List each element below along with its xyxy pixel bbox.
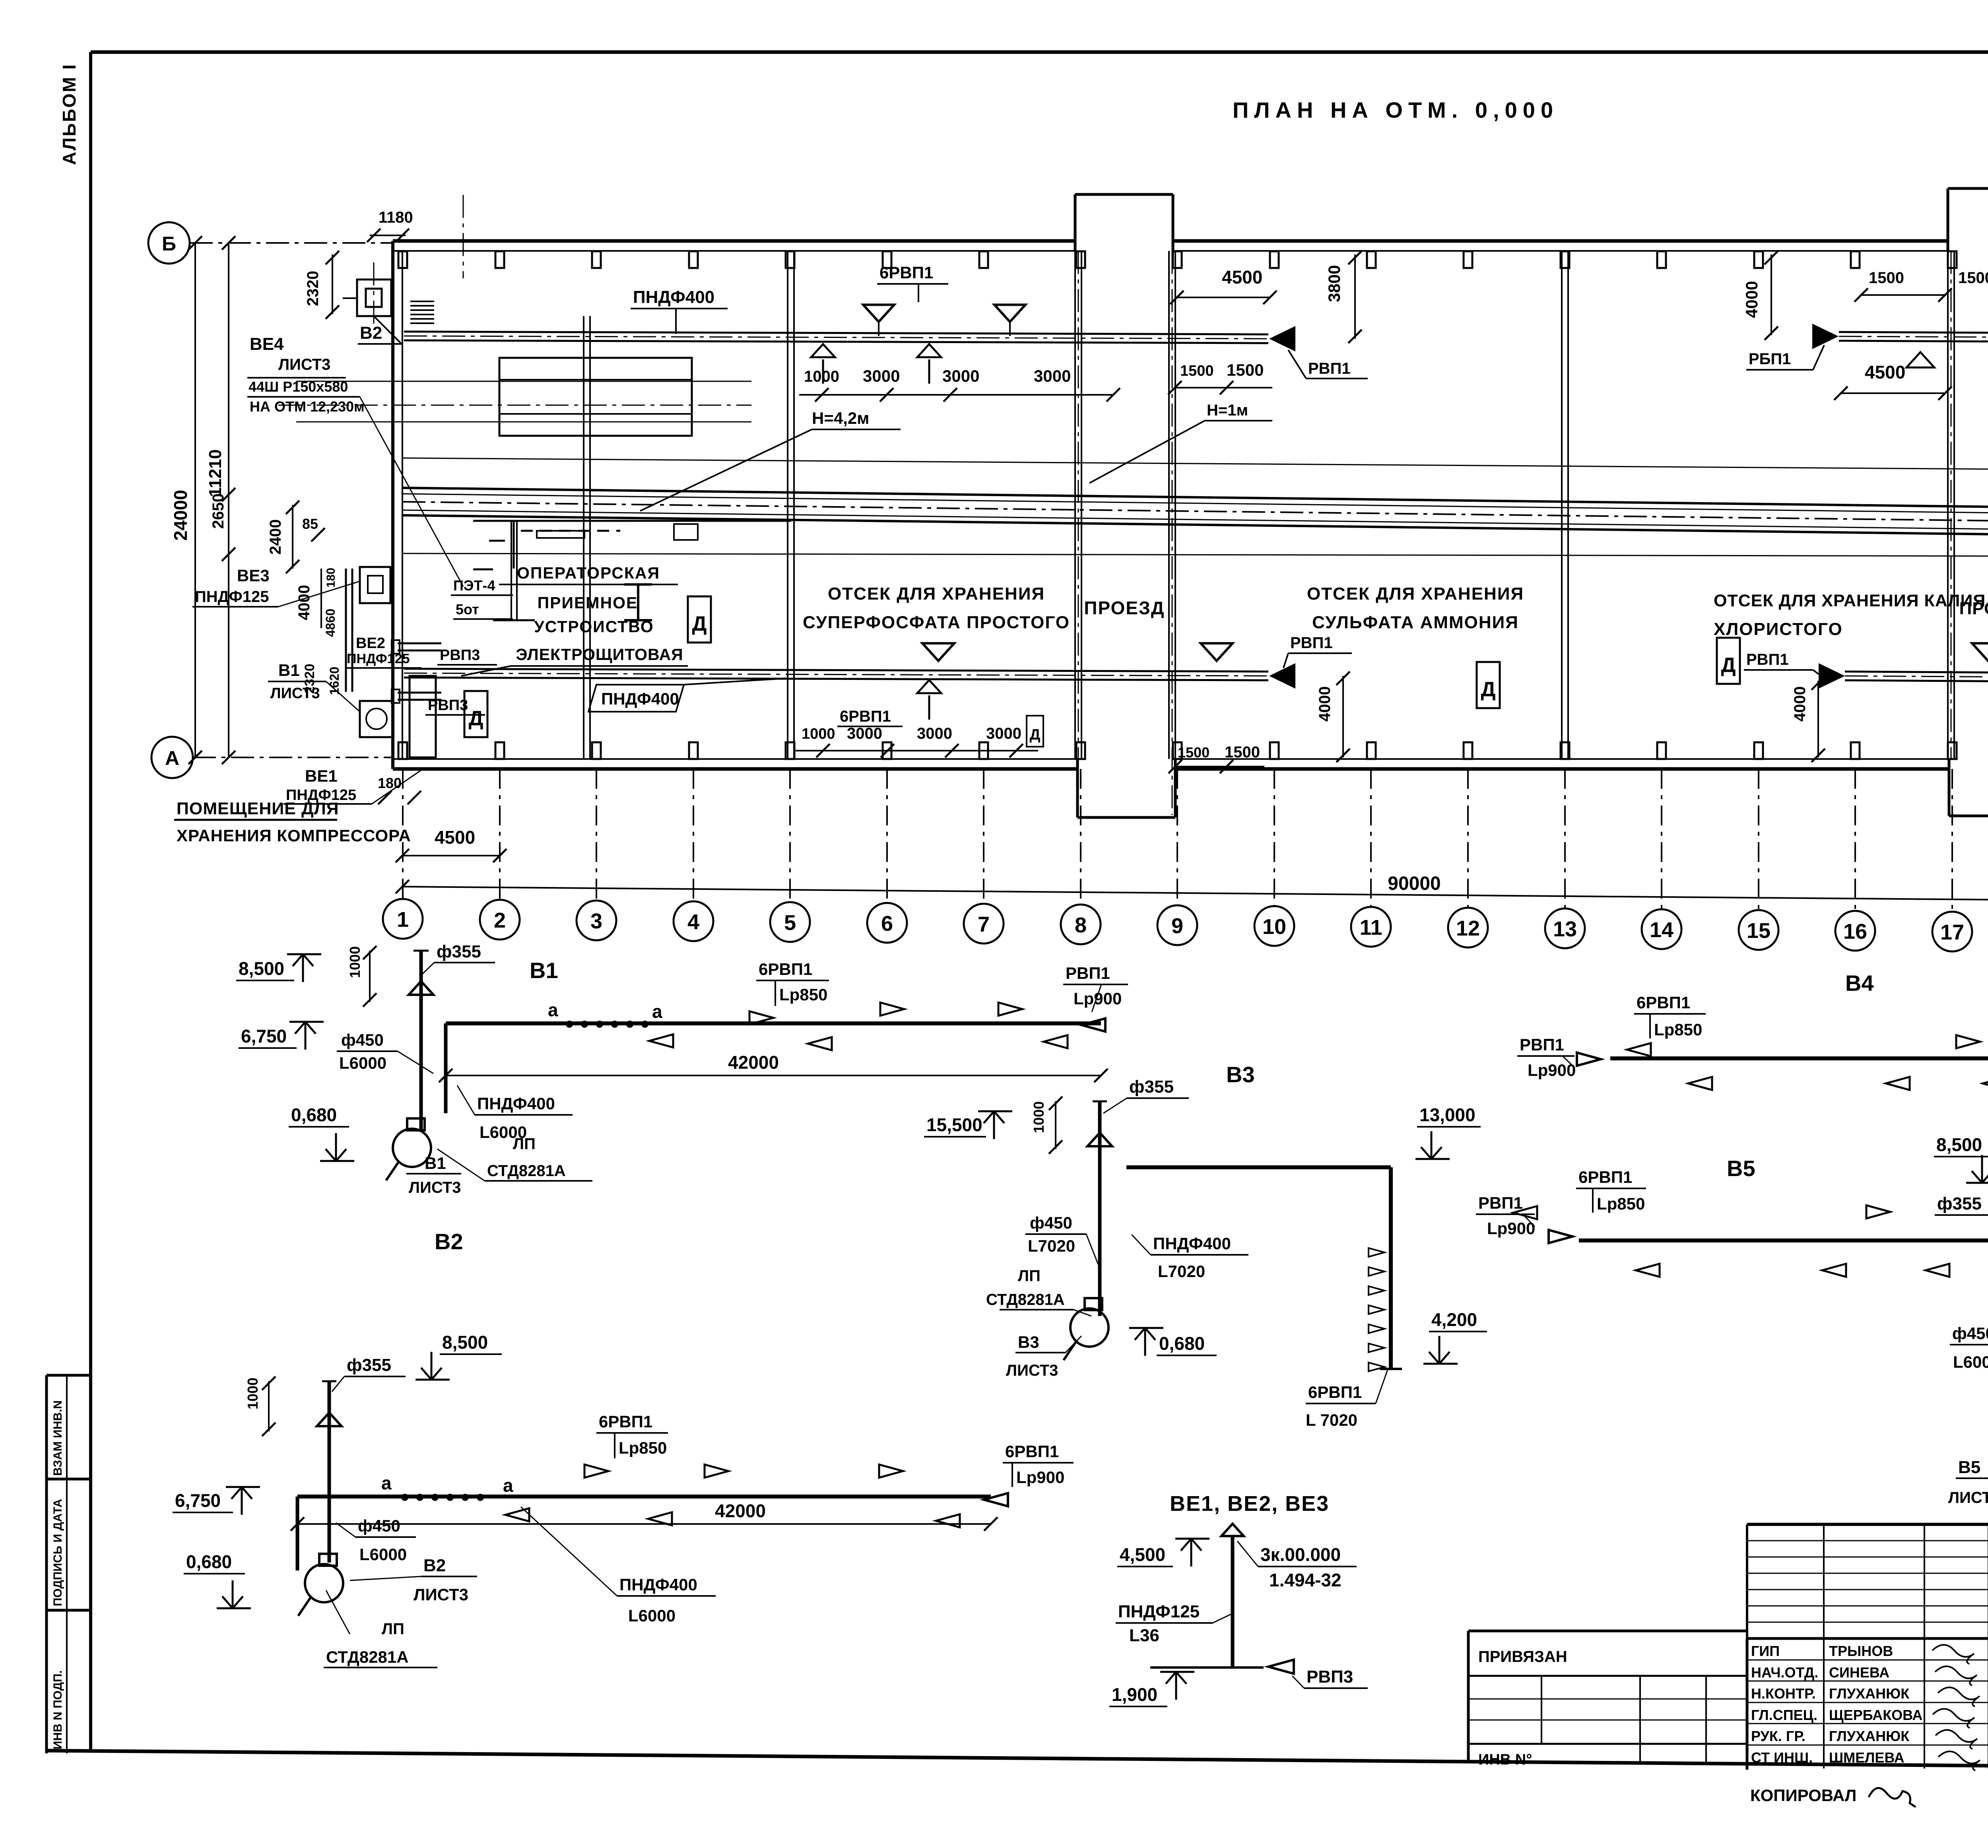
svg-text:ПОМЕЩЕНИЕ ДЛЯ: ПОМЕЩЕНИЕ ДЛЯ: [177, 799, 339, 818]
svg-text:а: а: [652, 1001, 662, 1022]
svg-text:ЛИСТ3: ЛИСТ3: [414, 1585, 468, 1604]
svg-text:ШМЕЛЕВА: ШМЕЛЕВА: [1829, 1749, 1905, 1766]
svg-text:3: 3: [590, 909, 602, 933]
svg-text:6РВП1: 6РВП1: [1005, 1442, 1059, 1461]
grid axis line 1: [402, 769, 404, 898]
B2 section marks a-a: [381, 1473, 513, 1501]
svg-text:1500: 1500: [1227, 361, 1264, 379]
grid circle 16: [1835, 911, 1875, 951]
svg-text:ХРАНЕНИЯ КОМПРЕССОРА: ХРАНЕНИЯ КОМПРЕССОРА: [177, 826, 411, 845]
svg-text:9: 9: [1171, 914, 1183, 938]
railway entry axis: [463, 195, 464, 278]
Д box 1: [464, 691, 487, 737]
svg-text:Д: Д: [1721, 654, 1736, 677]
svg-text:РВП3: РВП3: [440, 647, 480, 664]
B1 label РВП1 Lp900: [1063, 964, 1128, 1032]
svg-text:ВЕ1, ВЕ2, ВЕ3: ВЕ1, ВЕ2, ВЕ3: [1170, 1492, 1329, 1516]
svg-text:6,750: 6,750: [175, 1490, 221, 1511]
svg-text:6РВП1: 6РВП1: [1637, 993, 1690, 1012]
grid axis line 14: [1661, 769, 1662, 908]
svg-text:1180: 1180: [379, 209, 413, 226]
label РВП3 x2: [425, 647, 497, 715]
svg-text:РВП1: РВП1: [1308, 360, 1351, 377]
partition wall x1475: [584, 316, 590, 759]
svg-text:ИНВ N ПОДП.: ИНВ N ПОДП.: [51, 1670, 64, 1749]
grid circle 7: [964, 904, 1004, 943]
svg-text:ЛИСТ3: ЛИСТ3: [1006, 1362, 1058, 1379]
dim 1000-3000 upper-left: [799, 367, 1120, 402]
svg-text:7: 7: [978, 912, 990, 936]
B2 roof unit: [343, 262, 391, 330]
column ticks on walls: [398, 251, 1988, 759]
svg-text:180: 180: [324, 568, 338, 588]
label Операторская: [499, 564, 678, 584]
svg-text:СУЛЬФАТА АММОНИЯ: СУЛЬФАТА АММОНИЯ: [1312, 613, 1519, 632]
B3 label ЛП СТД8281А: [986, 1267, 1091, 1316]
B5 flow triangles above: [1866, 1205, 1890, 1219]
svg-text:8,500: 8,500: [442, 1332, 488, 1353]
B4 title: [1845, 971, 1874, 996]
B1 label ЛП СТД8281А: [437, 1135, 592, 1181]
privyazan texts: [1478, 1648, 1567, 1768]
svg-text:1000: 1000: [347, 946, 363, 978]
B3 label ф355: [1103, 1077, 1189, 1113]
label хранения компрессора: [177, 826, 411, 845]
svg-text:ПНДФ125: ПНДФ125: [1118, 1602, 1200, 1621]
svg-text:КОПИРОВАЛ: КОПИРОВАЛ: [1750, 1786, 1856, 1805]
svg-text:ф450: ф450: [341, 1031, 384, 1049]
svg-text:3000: 3000: [942, 367, 979, 385]
B1 dim 42000: [439, 1052, 1108, 1082]
duct ПНДФ400 upper-right: [1839, 332, 1988, 343]
label РБП1 upper-right: [1746, 345, 1824, 370]
stamp text ПОДПИСЬ И ДАТА: [51, 1499, 64, 1606]
grid axis line 16: [1854, 769, 1856, 910]
svg-text:ЛИСТ3: ЛИСТ3: [270, 685, 320, 702]
operator room walls: [473, 521, 791, 569]
B2 duct: [297, 1497, 991, 1570]
svg-text:А: А: [165, 747, 179, 769]
svg-text:13: 13: [1553, 917, 1577, 941]
svg-text:ГЛУХАНЮК: ГЛУХАНЮК: [1829, 1728, 1910, 1744]
label Отсек калия хлористого: [1714, 591, 1986, 639]
svg-text:L7020: L7020: [1028, 1237, 1075, 1255]
B3 level 4.200: [1423, 1309, 1487, 1364]
B1 level 6.750: [239, 1022, 324, 1050]
grid axis line 10: [1274, 769, 1275, 905]
svg-text:10: 10: [1262, 915, 1286, 939]
label ПНДФ400 lower-left: [588, 678, 787, 712]
svg-text:АЛЬБОМ I: АЛЬБОМ I: [59, 63, 80, 165]
svg-text:ф450: ф450: [1952, 1324, 1988, 1343]
B5 level 8.500: [1934, 1134, 1988, 1183]
svg-text:1000: 1000: [804, 368, 839, 385]
svg-text:6РВП1: 6РВП1: [759, 960, 812, 978]
svg-text:6РВП1: 6РВП1: [599, 1412, 652, 1431]
B1 section marks a-a: [548, 1000, 662, 1028]
passage partition walls: [1075, 251, 1988, 759]
svg-text:Lp850: Lp850: [1654, 1020, 1702, 1039]
svg-text:4000: 4000: [1791, 686, 1809, 722]
label ВЕ1 ПНДФ125 bottom: [283, 767, 421, 804]
svg-text:ПНДФ400: ПНДФ400: [1153, 1234, 1231, 1253]
B5 label 6РВП1 Lp850 left: [1513, 1168, 1646, 1219]
B3 level 0.680: [1129, 1328, 1217, 1356]
label ВЕ4 list3 top: [247, 334, 463, 586]
svg-text:РВП1: РВП1: [1746, 651, 1789, 668]
B2 label ЛП СТД8281А: [324, 1590, 437, 1667]
svg-text:1620: 1620: [327, 667, 342, 695]
grid circle 2: [480, 900, 520, 940]
label 6РВП1 lower-left: [837, 708, 903, 726]
label РВП1 lower-right: [1744, 651, 1829, 682]
svg-text:РВП1: РВП1: [1290, 634, 1333, 652]
svg-text:В5: В5: [1958, 1458, 1980, 1477]
svg-text:Lp900: Lp900: [1016, 1468, 1064, 1487]
title block names: [1751, 1643, 1988, 1766]
partition x1292: [493, 521, 535, 620]
B3 duct: [1126, 1167, 1402, 1369]
B1 dim 1000: [347, 946, 377, 1007]
dim 4000 left: [295, 569, 321, 628]
Д box 2: [688, 596, 711, 643]
duct arrow РБП1 upper-right start: [1812, 324, 1839, 349]
B4 label 6РВП1 Lp850: [1627, 993, 1706, 1056]
BE level 1.900: [1109, 1672, 1194, 1706]
svg-text:12: 12: [1456, 916, 1480, 940]
svg-text:14: 14: [1650, 918, 1673, 942]
grid axis line 13: [1564, 769, 1566, 908]
svg-text:2650: 2650: [210, 493, 227, 529]
svg-text:6,750: 6,750: [241, 1026, 287, 1046]
label Н=1м mid: [1089, 402, 1272, 483]
svg-text:6РВП1: 6РВП1: [879, 263, 933, 282]
svg-text:4000: 4000: [1316, 686, 1334, 722]
svg-text:ф355: ф355: [347, 1355, 391, 1375]
dim 1180 top: [367, 209, 413, 242]
svg-text:ВЕ4: ВЕ4: [250, 334, 284, 354]
svg-text:L6000: L6000: [339, 1054, 386, 1072]
svg-text:ЛИСТ3: ЛИСТ3: [409, 1179, 461, 1196]
label ПНДФ400 upper-left: [631, 287, 728, 334]
B5 title: [1727, 1156, 1755, 1181]
svg-text:ПРИВЯЗАН: ПРИВЯЗАН: [1478, 1648, 1567, 1666]
dim 1500-1500 lower passage1: [1169, 743, 1264, 773]
grid axis line 8: [1080, 769, 1081, 904]
grid axis line 5: [789, 769, 791, 901]
grid axis line 3: [596, 769, 597, 900]
dim 4000 lower mid: [1316, 672, 1350, 762]
svg-text:1500: 1500: [1180, 363, 1214, 379]
grid circle 3: [577, 901, 616, 940]
B2 fan: [298, 1554, 343, 1616]
exhaust arrows upper-left: [811, 344, 941, 384]
svg-text:а: а: [548, 1000, 558, 1020]
B3 label 6РВП1 L7020: [1306, 1370, 1388, 1429]
grid circle 17: [1932, 912, 1972, 951]
B1 fan: [386, 1118, 431, 1180]
B1 level 0.680: [289, 1105, 354, 1161]
svg-text:3000: 3000: [917, 725, 952, 742]
B3 level 15.500: [924, 1111, 1012, 1139]
B5 label ф355: [1935, 1194, 1988, 1215]
dim 1000-3000x3 lower-left: [796, 725, 1038, 757]
BE level 4.500: [1117, 1539, 1209, 1567]
stamp text ИНВ № ПОДП: [51, 1670, 64, 1749]
svg-text:ГИП: ГИП: [1751, 1643, 1780, 1659]
B1 flow triangles below: [649, 1035, 1068, 1050]
svg-text:0,680: 0,680: [291, 1105, 337, 1125]
svg-text:3800: 3800: [1325, 265, 1343, 302]
dim 1500-1500 right upper: [1854, 269, 1988, 302]
grid axis line 4: [693, 769, 694, 901]
svg-text:L6000: L6000: [628, 1606, 676, 1625]
B5 label ф450 L6000: [1950, 1324, 1988, 1371]
grid circle 10: [1254, 906, 1294, 946]
B2 level 8.500: [415, 1332, 502, 1380]
B4 flow triangles below: [1688, 1077, 1988, 1090]
svg-text:СУПЕРФОСФАТА ПРОСТОГО: СУПЕРФОСФАТА ПРОСТОГО: [803, 613, 1070, 632]
svg-text:11210: 11210: [206, 449, 225, 497]
svg-text:ПНДФ125: ПНДФ125: [347, 651, 410, 666]
passage 1 top protrusion: [1075, 194, 1173, 251]
B4 label РВП1 Lp900 left: [1517, 1035, 1601, 1079]
svg-text:ВЗАМ ИНВ.N: ВЗАМ ИНВ.N: [51, 1400, 64, 1476]
svg-text:ф450: ф450: [358, 1516, 400, 1535]
B2 dim 1000: [245, 1376, 276, 1436]
dim 1500-1500 mid: [1168, 361, 1272, 394]
svg-text:В5: В5: [1727, 1156, 1755, 1181]
svg-text:L6000: L6000: [1953, 1353, 1988, 1371]
dim 2320-1620 left: [302, 664, 342, 695]
svg-text:В1: В1: [278, 661, 300, 679]
B4 flow triangles above: [1956, 1035, 1988, 1048]
svg-text:90000: 90000: [1388, 873, 1441, 894]
svg-text:РВП3: РВП3: [1307, 1667, 1353, 1687]
svg-text:1,900: 1,900: [1112, 1684, 1157, 1705]
svg-text:8,500: 8,500: [1936, 1134, 1982, 1155]
B1 label ф450 L6000: [337, 1031, 433, 1073]
label В2 leader top: [358, 316, 402, 344]
grid axis line 7: [983, 769, 984, 903]
B3 riser: [1087, 1101, 1112, 1316]
passage 2 bottom protrusion: [1949, 759, 1988, 816]
svg-text:ПНДФ400: ПНДФ400: [619, 1575, 697, 1594]
B1 label ф355: [422, 942, 495, 974]
label Проезд 2: [1959, 599, 1988, 618]
svg-text:13,000: 13,000: [1419, 1105, 1475, 1125]
svg-text:Н=4,2м: Н=4,2м: [812, 409, 869, 427]
B1 label В1 ЛИСТ3: [406, 1154, 461, 1196]
dim 4500 upper mid: [1170, 267, 1277, 304]
svg-text:3000: 3000: [1034, 367, 1071, 385]
svg-text:ПНДФ400: ПНДФ400: [477, 1094, 555, 1113]
svg-text:6: 6: [881, 912, 893, 936]
title block signatures: [1932, 1645, 1980, 1770]
svg-text:4,500: 4,500: [1120, 1544, 1165, 1565]
svg-text:ОТСЕК ДЛЯ ХРАНЕНИЯ: ОТСЕК ДЛЯ ХРАНЕНИЯ: [1307, 584, 1524, 604]
grid axis line 6: [886, 769, 888, 902]
svg-text:11: 11: [1359, 916, 1382, 940]
svg-text:4860: 4860: [323, 609, 338, 637]
label Отсек суперфосфата простого: [803, 584, 1070, 632]
svg-text:2320: 2320: [304, 271, 322, 306]
svg-text:В1: В1: [530, 958, 558, 983]
svg-text:4500: 4500: [435, 827, 475, 848]
axis circle Б: [148, 222, 394, 264]
duct elbow lower-left: [410, 676, 436, 757]
svg-text:Lp900: Lp900: [1074, 989, 1122, 1008]
svg-text:ф355: ф355: [1129, 1077, 1174, 1097]
title block main rows: [1747, 1638, 1988, 1770]
dim 4000 lower right: [1791, 676, 1825, 762]
svg-text:1000: 1000: [802, 726, 835, 742]
receiving track lines: [296, 381, 751, 422]
svg-text:4,200: 4,200: [1431, 1309, 1477, 1330]
svg-text:УСТРОИСТВО: УСТРОИСТВО: [534, 617, 654, 636]
label Приемное устройство: [534, 594, 654, 636]
bottom wall axis А: [393, 759, 1988, 769]
label Н=4.2м left: [640, 409, 901, 511]
svg-text:ОТСЕК ДЛЯ ХРАНЕНИЯ: ОТСЕК ДЛЯ ХРАНЕНИЯ: [828, 584, 1045, 604]
partition wall axis5: [788, 251, 794, 759]
svg-text:4: 4: [687, 910, 699, 934]
scheme B1 riser: [409, 951, 433, 1132]
svg-text:1: 1: [397, 908, 409, 932]
svg-text:3000: 3000: [986, 725, 1021, 742]
svg-text:3000: 3000: [863, 367, 900, 385]
svg-text:Д: Д: [692, 612, 707, 635]
label РВП1 upper-left-end: [1288, 350, 1368, 379]
svg-text:ГЛ.СПЕЦ.: ГЛ.СПЕЦ.: [1751, 1707, 1817, 1723]
svg-text:44Ш Р150х580: 44Ш Р150х580: [248, 379, 348, 395]
svg-text:СТ ИНШ.: СТ ИНШ.: [1751, 1749, 1813, 1766]
Д box 3: [1477, 662, 1500, 708]
B3 level 13.000: [1415, 1105, 1481, 1159]
svg-text:В2: В2: [360, 323, 382, 343]
svg-text:1500: 1500: [1869, 269, 1904, 287]
svg-text:СТД8281А: СТД8281А: [487, 1162, 566, 1180]
label Помещение для: [174, 799, 339, 820]
title block upper table: [1747, 1524, 1988, 1770]
svg-text:ЛП: ЛП: [513, 1135, 536, 1153]
B3 label ПНДФ400 L7020: [1132, 1234, 1248, 1281]
svg-text:ПНДФ400: ПНДФ400: [633, 287, 714, 307]
svg-text:РВП1: РВП1: [1478, 1194, 1523, 1212]
svg-text:Д: Д: [1481, 678, 1495, 701]
svg-text:ЛП: ЛП: [1018, 1267, 1041, 1285]
svg-text:СТД8281А: СТД8281А: [986, 1291, 1065, 1308]
dim line 11210-2650: [206, 236, 235, 764]
B1 flow triangles above: [880, 1003, 1022, 1016]
label ПЭТ-4 5от: [451, 577, 513, 619]
stairs left: [410, 301, 434, 323]
svg-text:L 7020: L 7020: [1306, 1411, 1357, 1429]
grid axis line 11: [1370, 769, 1372, 906]
svg-text:4000: 4000: [1742, 281, 1761, 318]
BE title: [1170, 1492, 1329, 1516]
svg-text:а: а: [503, 1475, 513, 1496]
Д box 6: [1027, 716, 1043, 747]
grid axis line 15: [1758, 769, 1759, 909]
svg-text:85: 85: [302, 516, 318, 532]
svg-text:5: 5: [784, 911, 796, 935]
left end wall: [393, 241, 402, 769]
svg-text:ПНДФ125: ПНДФ125: [195, 588, 269, 606]
svg-text:ЭЛЕКТРОЩИТОВАЯ: ЭЛЕКТРОЩИТОВАЯ: [516, 645, 683, 664]
B3 small triangles: [1369, 1248, 1384, 1371]
duct arrow РВП1 upper-left end: [1269, 326, 1295, 351]
svg-text:1500: 1500: [1958, 269, 1988, 287]
svg-text:ОТСЕК ДЛЯ ХРАНЕНИЯ КАЛИЯ: ОТСЕК ДЛЯ ХРАНЕНИЯ КАЛИЯ: [1714, 591, 1986, 610]
flow tri small up right: [1906, 352, 1934, 368]
svg-text:L6000: L6000: [359, 1545, 407, 1564]
grid circle 1: [383, 899, 423, 939]
label 6РВП1 upper-left duct: [877, 263, 948, 302]
svg-text:1000: 1000: [245, 1378, 261, 1409]
svg-text:ПЭТ-4: ПЭТ-4: [453, 577, 495, 594]
B3 label В3 ЛИСТ3: [1006, 1333, 1081, 1379]
svg-text:1.494-32: 1.494-32: [1269, 1570, 1342, 1590]
B1 title: [530, 958, 558, 983]
svg-text:6РВП1: 6РВП1: [840, 708, 891, 725]
svg-text:4000: 4000: [295, 585, 313, 620]
B2 title: [435, 1229, 463, 1254]
svg-text:2: 2: [494, 908, 506, 932]
axis circle А: [151, 737, 394, 778]
svg-text:42000: 42000: [728, 1052, 779, 1073]
svg-text:РУК. ГР.: РУК. ГР.: [1751, 1728, 1806, 1744]
left stamp column boxes: [47, 1375, 91, 1753]
svg-text:В1: В1: [425, 1154, 446, 1172]
dashed equipment line: [521, 524, 698, 540]
privyazan table: [1468, 1631, 1747, 1765]
BE label РВП3: [1268, 1660, 1368, 1688]
room partition T marks: [624, 584, 652, 620]
svg-text:0,680: 0,680: [1159, 1333, 1205, 1354]
B3 title: [1226, 1062, 1255, 1087]
dim 90000: [396, 873, 1988, 909]
label ВЕ2 ПНДФ125: [345, 635, 421, 668]
svg-text:В2: В2: [435, 1229, 463, 1254]
svg-text:15,500: 15,500: [926, 1114, 982, 1135]
label ПНДФ400 mid-left: [0, 0, 0, 0]
svg-text:8,500: 8,500: [239, 958, 284, 979]
svg-text:2400: 2400: [267, 519, 284, 555]
svg-text:ИНВ N°: ИНВ N°: [1478, 1751, 1532, 1768]
grid axis line 17: [1951, 769, 1953, 911]
stamp text ВЗАМ ИНВ №: [51, 1400, 64, 1476]
svg-text:8: 8: [1075, 913, 1087, 937]
B2 riser: [317, 1381, 342, 1563]
B2 flow triangles above: [705, 1465, 903, 1478]
svg-text:ф450: ф450: [1030, 1213, 1072, 1232]
B2 label ф355: [332, 1355, 406, 1392]
grid circle 4: [674, 901, 713, 941]
partition wall axis 13: [1562, 251, 1568, 759]
svg-text:РВП1: РВП1: [1520, 1035, 1564, 1054]
grid circle 15: [1739, 910, 1778, 950]
svg-text:ЛИСТ 3: ЛИСТ 3: [1948, 1489, 1988, 1506]
svg-text:ОПЕРАТОРСКАЯ: ОПЕРАТОРСКАЯ: [517, 564, 660, 582]
svg-text:24000: 24000: [170, 490, 191, 541]
railway band double line: [402, 488, 1988, 538]
dim 3800 vertical: [1325, 251, 1362, 343]
svg-text:L7020: L7020: [1158, 1262, 1205, 1281]
svg-text:15: 15: [1747, 919, 1771, 943]
svg-text:В3: В3: [1018, 1333, 1039, 1351]
dim 85: [302, 516, 325, 542]
